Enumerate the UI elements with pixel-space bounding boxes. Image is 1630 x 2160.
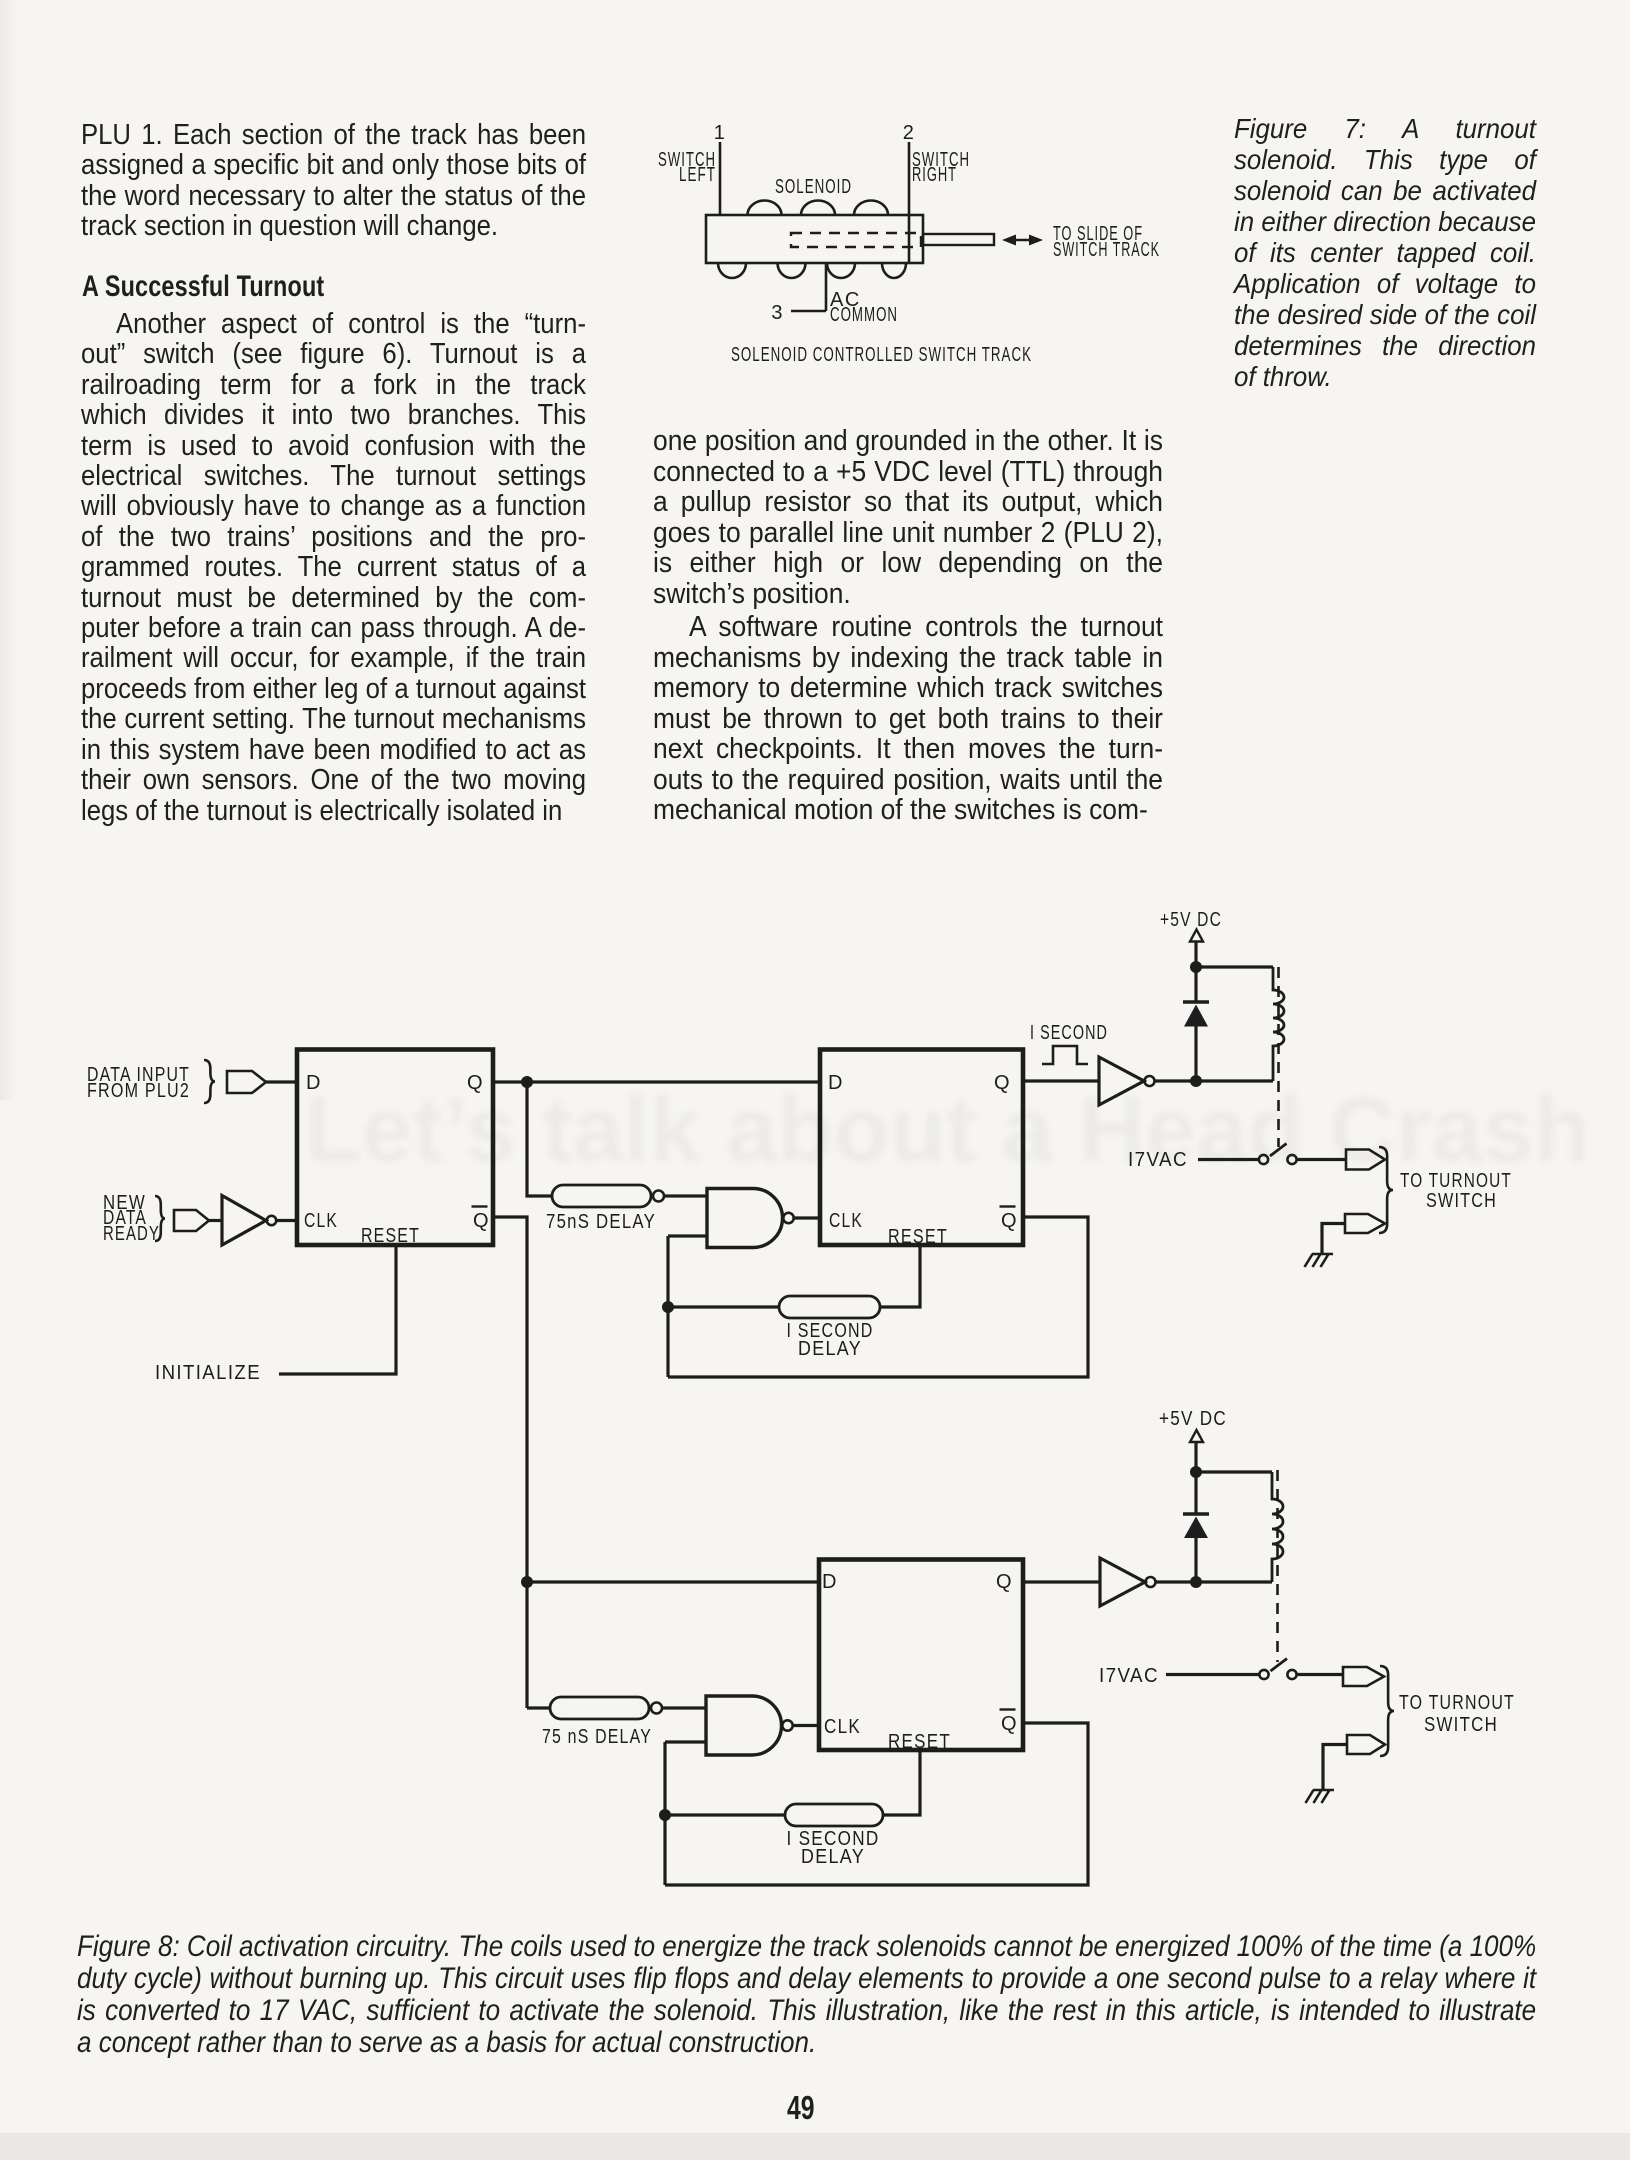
svg-text:TO TURNOUT: TO TURNOUT (1400, 1170, 1512, 1192)
page number (787, 2089, 815, 2127)
relay coil K1 (1273, 967, 1284, 1081)
NAND U3 bubble (783, 1213, 793, 1223)
svg-text:CLK: CLK (304, 1210, 338, 1232)
wire connector 4 to ground (bottom) (1323, 1745, 1347, 1791)
double-headed arrow (1002, 235, 1043, 246)
flip flop FF1 (297, 1050, 493, 1246)
junction dot feedback bottom (659, 1809, 671, 1821)
junction dot feedback top (662, 1301, 674, 1313)
wire connector to inverter U1 (209, 1219, 222, 1222)
solenoid body (706, 215, 923, 263)
wire NAND U3 input B (668, 1234, 707, 1237)
svg-text:2: 2 (903, 122, 916, 144)
svg-text:75nS DELAY: 75nS DELAY (546, 1211, 656, 1233)
output connector 4 (bottom) (1347, 1735, 1385, 1754)
wire delay to NAND U6 input A (662, 1706, 706, 1709)
inverter U7 (1100, 1558, 1145, 1606)
diode D2 cathode bar (1183, 1512, 1209, 1516)
svg-text:DELAY: DELAY (801, 1846, 865, 1868)
wire FF3 Q to inverter U7 (1023, 1580, 1100, 1583)
wire FF2 Q to inverter U4 (1023, 1079, 1099, 1082)
75nS delay element (bottom) (550, 1697, 649, 1719)
svg-text:TO TURNOUT: TO TURNOUT (1399, 1692, 1515, 1714)
wire NAND U3 to FF2 CLK (794, 1216, 820, 1219)
svg-text:Q: Q (1001, 1713, 1018, 1735)
FF3 Qbar overline (1000, 1708, 1016, 1710)
label SWITCH RIGHT (912, 149, 970, 186)
relay contact terminal right (top) (1287, 1155, 1296, 1164)
relay contact terminal right (bottom) (1287, 1670, 1296, 1679)
wire FF1 Qbar to long vertical (493, 1217, 527, 1708)
wire +5V node to relay coil K2 (1196, 1470, 1272, 1473)
feedback vertical to 1 second delay (bottom) (663, 1742, 666, 1885)
svg-text:CLK: CLK (824, 1716, 861, 1738)
wire connector 2 to ground (top) (1322, 1224, 1345, 1255)
wire U4 to coil node (1155, 1079, 1274, 1082)
label TO SLIDE OF SWITCH TRACK (1053, 223, 1160, 261)
NAND U3 body (707, 1189, 783, 1248)
middle column paragraph 1 (653, 426, 1163, 609)
output connector 3 (bottom) (1343, 1667, 1384, 1686)
ghost bleed-through headline from reverse page (305, 1078, 1545, 1183)
svg-text:RESET: RESET (888, 1226, 948, 1248)
relay contact terminal left (top) (1259, 1155, 1268, 1164)
FF1 pin labels (304, 1072, 490, 1247)
label AC COMMON (830, 289, 898, 326)
+5V supply wire (top) (1194, 942, 1197, 1082)
svg-text:SWITCH TRACK: SWITCH TRACK (1053, 239, 1160, 261)
svg-text:D: D (828, 1072, 844, 1094)
svg-text:RIGHT: RIGHT (912, 164, 957, 186)
svg-text:I7VAC: I7VAC (1128, 1149, 1188, 1171)
diode D1 (1184, 1005, 1208, 1027)
wire +5V node to relay coil K1 (1196, 965, 1273, 968)
svg-text:RESET: RESET (361, 1225, 420, 1247)
relay contact terminal left (bottom) (1259, 1670, 1268, 1679)
wire connector to FF1 D (266, 1080, 296, 1083)
svg-text:RESET: RESET (888, 1731, 951, 1753)
pin 1 lead (719, 142, 722, 215)
inverter U1 bubble (267, 1216, 276, 1225)
feedback loop bottom wire (top channel) (668, 1217, 1088, 1377)
junction dot U4 output (1190, 1075, 1202, 1087)
svg-text:LEFT: LEFT (679, 164, 716, 186)
svg-text:I SECOND: I SECOND (1030, 1022, 1108, 1044)
brace TO TURNOUT SWITCH (top) (1379, 1147, 1393, 1233)
svg-text:FROM PLU2: FROM PLU2 (87, 1080, 190, 1102)
wire NAND U6 input B (665, 1740, 706, 1743)
input connector DATA INPUT (227, 1071, 266, 1093)
75nS delay output bubble (bottom) (651, 1703, 662, 1714)
figure 8 caption (77, 1931, 1536, 2059)
wire contact to connector (top) (1297, 1158, 1346, 1161)
svg-text:Q: Q (467, 1072, 484, 1094)
figure 7 caption (1234, 113, 1536, 392)
relay switch blade (bottom) (1271, 1659, 1288, 1672)
FF2 pin labels (828, 1072, 1018, 1248)
svg-text:SWITCH: SWITCH (1426, 1190, 1497, 1212)
junction dot U7 output (1190, 1576, 1202, 1588)
svg-text:D: D (306, 1072, 322, 1094)
diode D1 cathode bar (1183, 1000, 1209, 1004)
FF1 Qbar overline (472, 1205, 488, 1207)
+5V arrow (top) (1190, 930, 1203, 942)
ground (top) (1305, 1254, 1334, 1267)
bottom page-edge shadow band (0, 2133, 1630, 2160)
brace for DATA INPUT (204, 1060, 215, 1103)
svg-text:+5V DC: +5V DC (1160, 909, 1222, 931)
ground (bottom) (1306, 1790, 1335, 1803)
junction dot +5V (bottom) (1190, 1466, 1202, 1478)
1 second delay element (top) (779, 1296, 880, 1318)
middle column paragraph 2 (653, 612, 1163, 826)
relay K2 mechanical link (dashed) (1276, 1470, 1279, 1662)
junction dot Q1 (521, 1076, 533, 1088)
wire junction to 1 second delay (668, 1305, 779, 1308)
feedback vertical to 1 second delay (666, 1236, 669, 1377)
svg-text:READY: READY (103, 1223, 160, 1245)
svg-text:COMMON: COMMON (830, 304, 898, 326)
pin 2 lead (908, 142, 911, 263)
diode D2 (1184, 1517, 1208, 1539)
wire contact to connector (bottom) (1297, 1673, 1343, 1676)
label SWITCH LEFT (658, 149, 716, 186)
label I SECOND DELAY (bottom) (787, 1828, 880, 1868)
svg-text:Q: Q (473, 1210, 490, 1232)
svg-text:Q: Q (1001, 1210, 1018, 1232)
svg-text:INITIALIZE: INITIALIZE (155, 1362, 261, 1384)
label DATA INPUT FROM PLU2 (87, 1064, 190, 1102)
75nS delay output bubble (653, 1191, 664, 1202)
junction dot +5V (top) (1190, 961, 1202, 973)
label NEW DATA READY (103, 1192, 160, 1245)
wire 17VAC to switch (bottom) (1166, 1673, 1259, 1676)
inverter U4 bubble (1145, 1076, 1155, 1086)
brace TO TURNOUT SWITCH (bottom) (1380, 1666, 1394, 1756)
output connector 2 (top) (1345, 1214, 1385, 1233)
relay K1 mechanical link (dashed) (1277, 967, 1280, 1147)
inverter U4 (1099, 1057, 1144, 1105)
label I SECOND DELAY (top) (787, 1320, 874, 1360)
solenoid coil bottom loops (718, 263, 906, 278)
svg-text:SOLENOID CONTROLLED SWITCH: SOLENOID CONTROLLED SWITCH TRACK (731, 344, 1032, 366)
wire NAND U6 to FF3 CLK (793, 1724, 819, 1727)
FF3 pin labels (822, 1571, 1018, 1753)
label TO TURNOUT SWITCH (bottom) (1399, 1692, 1515, 1736)
solenoid coil top loops (748, 201, 889, 216)
wire vertical into 75nS delay (bottom) (527, 1706, 550, 1709)
slide rod (outside) (923, 234, 994, 245)
left column paragraph 2 (81, 309, 586, 826)
75nS delay element (top) (552, 1185, 651, 1207)
svg-text:Q: Q (994, 1072, 1011, 1094)
junction dot FF3 D branch (521, 1576, 533, 1588)
NAND U6 body (706, 1696, 782, 1755)
flip flop FF2 (820, 1050, 1023, 1246)
wire to FF3 D (527, 1580, 819, 1583)
pin 3 lead (791, 263, 826, 311)
inverter U1 (222, 1196, 266, 1246)
slide rod (dashed, inside coil) (791, 233, 921, 247)
label TO TURNOUT SWITCH (top) (1400, 1170, 1512, 1212)
wire 1 second delay to FF2 RESET (880, 1245, 920, 1307)
wire junction down to 75nS delay (527, 1082, 552, 1196)
wire INITIALIZE to FF1 RESET (279, 1245, 396, 1374)
svg-text:1: 1 (714, 122, 727, 144)
wire 1 second delay to FF3 RESET (883, 1750, 920, 1815)
relay switch blade (top) (1270, 1144, 1287, 1157)
svg-text:DELAY: DELAY (798, 1338, 862, 1360)
left column paragraph 1 (81, 120, 586, 242)
wire delay to NAND U3 input A (664, 1194, 707, 1197)
svg-text:Q: Q (996, 1571, 1013, 1593)
pulse waveform glyph (1042, 1046, 1088, 1064)
wire 17VAC to switch (1198, 1158, 1259, 1161)
svg-text:SWITCH: SWITCH (1424, 1714, 1498, 1736)
input connector NEW DATA READY (174, 1210, 209, 1231)
flip flop FF3 (819, 1560, 1023, 1751)
brace for NEW DATA READY (155, 1196, 165, 1241)
svg-text:75 nS DELAY: 75 nS DELAY (542, 1726, 652, 1748)
inverter U7 bubble (1146, 1577, 1156, 1587)
+5V arrow (bottom) (1190, 1430, 1203, 1442)
feedback loop bottom wire (bottom channel) (665, 1723, 1088, 1885)
wire U7 to coil node (1156, 1580, 1273, 1583)
+5V supply wire (bottom) (1194, 1442, 1197, 1582)
FF2 Qbar overline (1000, 1205, 1016, 1207)
NAND U6 bubble (782, 1720, 792, 1730)
wire U1 to FF1 CLK (276, 1219, 296, 1222)
wire FF1 Q to FF2 D (493, 1080, 820, 1083)
svg-text:SOLENOID: SOLENOID (775, 176, 852, 198)
output connector 1 (top) (1346, 1150, 1385, 1170)
svg-text:D: D (822, 1571, 838, 1593)
svg-text:CLK: CLK (829, 1210, 863, 1232)
svg-text:I7VAC: I7VAC (1099, 1665, 1159, 1687)
relay coil K2 (1272, 1472, 1283, 1582)
svg-text:3: 3 (771, 302, 784, 324)
1 second delay element (bottom) (785, 1804, 883, 1826)
wire junction to 1 second delay (bottom) (665, 1813, 785, 1816)
svg-text:+5V DC: +5V DC (1159, 1408, 1227, 1430)
section heading (82, 270, 324, 304)
